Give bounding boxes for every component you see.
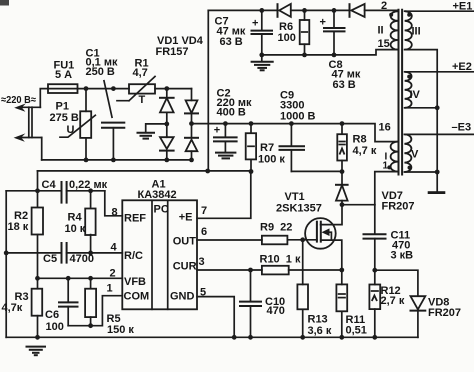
svg-text:15: 15 — [378, 38, 390, 50]
capacitor C4 0,22uF — [42, 179, 108, 203]
svg-text:8: 8 — [112, 207, 118, 219]
capacitor C5 4700 — [43, 243, 94, 265]
resistor R4 10k — [65, 188, 96, 255]
wire: aux ground rail — [262, 50, 398, 55]
IC A1 KA3842 — [107, 179, 208, 310]
ground (C7) — [252, 62, 273, 71]
resistor R9 22 — [260, 222, 305, 245]
wire: R2 bottom to R3 — [37, 235, 39, 289]
svg-text:4,7 к: 4,7 к — [353, 145, 377, 157]
wire: clamp rail — [291, 170, 342, 172]
resistor R13 3,6k (gate) — [297, 240, 331, 340]
wire: main ground rail — [6, 336, 418, 338]
wire: VCC corner down to R2 column — [37, 171, 39, 207]
svg-text:+: + — [320, 16, 326, 28]
transformer winding V (-E3) — [404, 121, 474, 174]
bridge diode VD3 (right top) — [185, 89, 198, 138]
wire: R/C row y=253 — [6, 252, 122, 254]
svg-text:16: 16 — [379, 121, 391, 133]
wire: bottom AC rail — [42, 159, 192, 161]
capacitor C7 47uF 63V — [215, 8, 273, 61]
ground (R3 / main) — [27, 347, 46, 356]
svg-text:R2: R2 — [14, 210, 28, 222]
svg-text:FR157: FR157 — [156, 46, 189, 58]
resistor R7 100k — [246, 121, 286, 174]
node: bridge plus / +310V rail — [189, 121, 194, 126]
AC input connector ~220 V — [1, 94, 42, 142]
wire: CUR pin 3 to R10 — [197, 269, 262, 271]
transformer winding IV (+E2) — [405, 61, 474, 110]
svg-text:4,7к: 4,7к — [2, 302, 23, 314]
svg-text:VT1: VT1 — [285, 191, 305, 203]
svg-text:1000 В: 1000 В — [280, 110, 316, 122]
diode VD8 FR207 — [375, 270, 461, 337]
transformer winding II (pins 2,15) — [378, 0, 398, 50]
svg-text:3 кВ: 3 кВ — [391, 250, 414, 262]
svg-text:100: 100 — [46, 321, 64, 333]
svg-text:–Е3: –Е3 — [452, 121, 472, 133]
fuse FU1 — [48, 59, 78, 93]
svg-text:3: 3 — [199, 256, 205, 268]
wire: input lower lead — [41, 138, 43, 160]
svg-text:4,7: 4,7 — [133, 67, 148, 79]
svg-text:+Е2: +Е2 — [452, 61, 472, 73]
svg-text:CUR: CUR — [173, 260, 197, 272]
transformer winding I (pins 16,1) — [375, 121, 398, 204]
wire: left rail — [5, 191, 7, 337]
svg-text:КА3842: КА3842 — [138, 189, 177, 201]
svg-text:7: 7 — [201, 205, 207, 217]
svg-text:2: 2 — [381, 0, 387, 12]
svg-text:R13: R13 — [308, 314, 328, 326]
wire: OUT pin 6 to R9 — [197, 239, 262, 241]
capacitor C10 470 — [240, 270, 285, 340]
capacitor C8 47uF 63V — [320, 8, 361, 91]
svg-text:+: + — [214, 124, 220, 136]
svg-text:4: 4 — [111, 242, 118, 254]
bridge diode VD4 (right bottom) — [185, 138, 198, 160]
corner smudge — [0, 0, 9, 6]
svg-text:III: III — [412, 26, 421, 38]
svg-text:COM: COM — [124, 290, 150, 302]
ground (transformer secondary common) — [428, 191, 446, 194]
wire: drain node — [342, 204, 375, 206]
diode VD7 FR207 — [336, 172, 415, 213]
svg-text:R4: R4 — [68, 212, 83, 224]
svg-text:VFB: VFB — [124, 276, 146, 288]
svg-text:+Е1: +Е1 — [453, 1, 473, 13]
svg-text:R6: R6 — [279, 21, 293, 33]
svg-text:400 В: 400 В — [217, 106, 246, 118]
svg-text:C5: C5 — [43, 253, 57, 265]
MOSFET VT1 2SK1357 — [276, 191, 342, 270]
capacitor C6 100 — [45, 276, 78, 333]
svg-text:0,22 мк: 0,22 мк — [69, 179, 108, 191]
svg-text:2,7 к: 2,7 к — [381, 295, 405, 307]
resistor R10 1k — [248, 253, 344, 274]
wire: REF pin 8 — [105, 191, 123, 216]
wire: AC top to bridge — [155, 88, 192, 90]
capacitor C2 220uF 400V — [214, 88, 252, 159]
svg-text:R/C: R/C — [124, 250, 143, 262]
bridge diode VD1 (left top) — [160, 89, 174, 138]
capacitor C1 0,1 uF 250 V — [86, 48, 125, 163]
bridge diode VD2 (left bottom) — [160, 137, 174, 160]
svg-text:63 В: 63 В — [220, 36, 243, 48]
wire: top AC wire to R1 — [78, 88, 130, 90]
svg-text:U: U — [67, 124, 75, 136]
svg-text:100: 100 — [278, 32, 296, 44]
svg-text:PC: PC — [154, 204, 169, 216]
wire: GND pin 5 — [197, 297, 234, 338]
svg-text:100 к: 100 к — [258, 153, 285, 165]
svg-text:R9 22: R9 22 — [260, 222, 292, 234]
svg-text:4700: 4700 — [70, 253, 94, 265]
svg-text:470: 470 — [267, 305, 285, 317]
svg-text:FR207: FR207 — [428, 307, 461, 319]
wire: input upper lead — [40, 89, 48, 108]
node: bridge minus to ground — [138, 122, 170, 139]
svg-text:GND: GND — [170, 290, 195, 302]
svg-text:0,51: 0,51 — [346, 324, 367, 336]
wire: COM pin 1 path — [68, 296, 122, 326]
transformer core — [399, 10, 403, 175]
resistor R12 2,7k — [369, 270, 404, 339]
svg-text:5 А: 5 А — [55, 69, 72, 81]
diode VD6 — [350, 4, 398, 17]
resistor R2 18k — [8, 208, 44, 235]
svg-text:250 В: 250 В — [86, 66, 115, 78]
wire: +E pin 7 to VCC rail — [197, 172, 251, 219]
svg-text:T: T — [139, 94, 146, 106]
svg-text:1: 1 — [107, 283, 113, 295]
svg-text:C6: C6 — [45, 309, 59, 321]
resistor R5 150k — [85, 276, 134, 336]
wire: +310V rail to pin16 — [192, 124, 398, 142]
resistor R8 4,7k — [337, 121, 377, 174]
svg-text:C4: C4 — [42, 179, 57, 191]
svg-text:REF: REF — [124, 213, 146, 225]
svg-text:275 В: 275 В — [50, 112, 79, 124]
capacitor C11 470 3kV — [364, 205, 414, 273]
varistor P1 275 V — [50, 86, 96, 162]
svg-text:R10 1 к: R10 1 к — [260, 253, 301, 265]
svg-text:+E: +E — [179, 212, 193, 224]
svg-text:R7: R7 — [260, 142, 274, 154]
resistor R11 0,51 (sense) — [336, 270, 367, 340]
svg-text:V: V — [411, 149, 419, 161]
svg-text:FR207: FR207 — [382, 200, 415, 212]
svg-text:2SK1357: 2SK1357 — [276, 202, 322, 214]
svg-text:18 к: 18 к — [8, 221, 29, 233]
svg-text:P1: P1 — [56, 100, 69, 112]
svg-text:≈220 В≈: ≈220 В≈ — [1, 94, 36, 106]
diode VD5 — [278, 4, 350, 17]
svg-text:IV: IV — [410, 89, 421, 101]
svg-text:6: 6 — [201, 226, 207, 238]
wire: VFB row y=278 — [38, 277, 123, 279]
resistor R6 100 — [278, 8, 310, 57]
svg-text:63 В: 63 В — [333, 79, 356, 91]
resistor R3 4,7k — [2, 289, 43, 340]
svg-text:150 к: 150 к — [107, 324, 134, 336]
wire: VCC rail — [38, 170, 251, 172]
svg-text:3,6 к: 3,6 к — [308, 325, 332, 337]
wire: aux vertical (top section to VCC rail) — [207, 10, 209, 171]
svg-text:OUT: OUT — [173, 236, 197, 248]
svg-text:II: II — [378, 25, 384, 37]
thermistor R1 4,7 — [117, 58, 155, 106]
svg-text:1: 1 — [383, 161, 389, 172]
svg-text:R3: R3 — [15, 291, 29, 303]
transformer winding III (+E1) — [405, 1, 474, 191]
capacitor C9 3300pF 1000V — [280, 89, 316, 171]
wire: top aux rail — [208, 9, 277, 11]
svg-text:+: + — [252, 18, 258, 30]
svg-text:10 к: 10 к — [65, 223, 86, 235]
wire: REF row y=191 — [6, 190, 105, 192]
svg-text:R8: R8 — [353, 134, 367, 146]
